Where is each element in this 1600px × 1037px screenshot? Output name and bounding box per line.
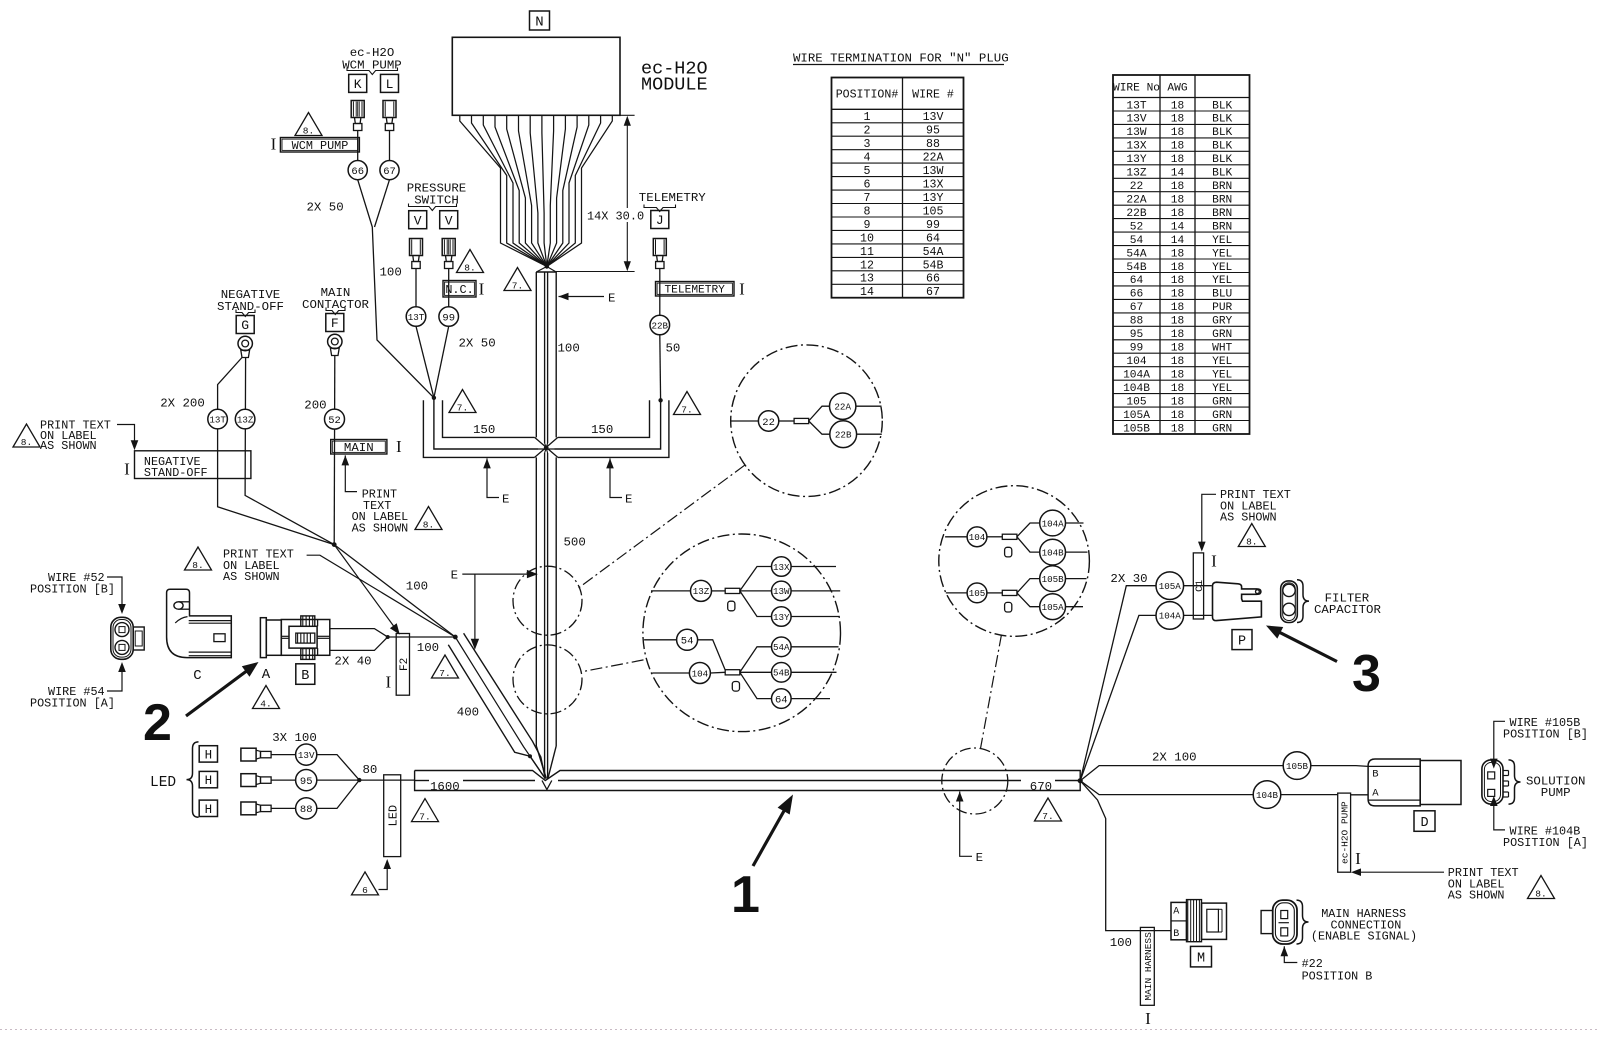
- svg-text:7.: 7.: [1042, 811, 1053, 822]
- wire circle 66: [348, 161, 367, 180]
- wire from junction to channel top: [334, 545, 455, 637]
- svg-text:18: 18: [1171, 423, 1184, 435]
- wires from circles to filter capacitor plug: [1184, 585, 1212, 587]
- svg-text:8: 8: [864, 205, 871, 218]
- svg-text:18: 18: [1171, 370, 1184, 382]
- wire circle 13V: [296, 744, 317, 765]
- svg-text:K: K: [354, 77, 362, 92]
- lug terminal 13V: [241, 748, 256, 761]
- svg-text:18: 18: [1171, 356, 1184, 368]
- main bundle middle line: [415, 780, 429, 782]
- svg-text:BLK: BLK: [1212, 154, 1232, 166]
- svg-text:1600: 1600: [430, 780, 460, 794]
- svg-text:100: 100: [417, 641, 439, 655]
- drawing frame bottom edge: [0, 1029, 1600, 1031]
- terminal under L: [383, 101, 396, 118]
- svg-text:18: 18: [1171, 114, 1184, 126]
- wire from F ring terminal down: [333, 356, 336, 545]
- wire circle 13T (stand-off): [208, 409, 228, 429]
- boxed label TELEMETRY: [656, 282, 735, 297]
- O mark under 105 splice: [1005, 602, 1012, 612]
- wire circle 105B (detail): [1040, 566, 1066, 592]
- svg-text:22: 22: [762, 417, 775, 429]
- note triangle 7 under bundle right: [1035, 798, 1062, 821]
- svg-text:67: 67: [1130, 302, 1143, 314]
- svg-text:2: 2: [143, 694, 172, 752]
- left arm channel of breakout: [423, 400, 534, 457]
- wire circle 104 (detail 3): [967, 527, 987, 547]
- svg-text:H: H: [205, 748, 213, 762]
- svg-text:GRN: GRN: [1212, 396, 1232, 408]
- svg-text:13V: 13V: [1126, 114, 1146, 126]
- svg-text:7: 7: [864, 192, 871, 205]
- svg-text:E: E: [502, 492, 509, 506]
- svg-text:104: 104: [692, 668, 709, 679]
- svg-text:105A: 105A: [1159, 581, 1182, 592]
- svg-text:3: 3: [1352, 645, 1381, 703]
- svg-text:14: 14: [1171, 221, 1185, 233]
- note triangle 7 left arm: [449, 390, 476, 413]
- svg-text:6: 6: [864, 179, 871, 192]
- main harness mating face (3-pos): [1273, 900, 1297, 944]
- svg-text:CONTACTOR: CONTACTOR: [302, 298, 369, 312]
- svg-text:POSITION [A]: POSITION [A]: [1503, 836, 1588, 850]
- svg-text:BLK: BLK: [1212, 168, 1232, 180]
- fan to 105B/105A: [1017, 579, 1040, 593]
- svg-text:67: 67: [926, 286, 940, 299]
- svg-text:I: I: [271, 135, 277, 154]
- svg-text:8.: 8.: [423, 519, 434, 530]
- svg-text:YEL: YEL: [1212, 383, 1232, 395]
- junction dot at bundle right end: [1078, 778, 1083, 783]
- bracket under PRESSURE SWITCH label: [409, 204, 457, 211]
- terminal under K: [351, 101, 364, 118]
- svg-text:10: 10: [860, 232, 874, 245]
- O mark under 104 splice: [1005, 547, 1012, 557]
- svg-text:F2: F2: [399, 658, 411, 671]
- svg-text:54A: 54A: [923, 246, 944, 259]
- svg-text:64: 64: [926, 232, 940, 245]
- splice joint (105): [1002, 590, 1017, 595]
- svg-text:66: 66: [1130, 289, 1143, 301]
- svg-text:13Z: 13Z: [693, 586, 710, 597]
- svg-text:22A: 22A: [923, 152, 944, 165]
- fan to 104A/104B: [1017, 523, 1040, 537]
- wire circle 88: [296, 798, 317, 819]
- svg-text:54: 54: [1130, 235, 1144, 247]
- svg-text:105B: 105B: [1042, 574, 1065, 585]
- wire from J terminal to 22B: [659, 269, 661, 316]
- wire circle 105A (detail): [1040, 594, 1066, 620]
- connector B cylindrical body: [260, 618, 266, 658]
- svg-text:PUMP: PUMP: [1541, 786, 1571, 800]
- svg-text:22A: 22A: [1126, 195, 1146, 207]
- svg-text:7.: 7.: [439, 668, 450, 679]
- svg-text:WIRE TERMINATION FOR "N" PLUG: WIRE TERMINATION FOR "N" PLUG: [793, 52, 1009, 66]
- svg-text:E: E: [608, 292, 615, 306]
- svg-text:GRN: GRN: [1212, 423, 1232, 435]
- E leader at bundle top: [559, 293, 569, 301]
- big arrow 1: [753, 802, 789, 866]
- svg-text:11: 11: [860, 246, 874, 259]
- svg-text:66: 66: [351, 166, 364, 178]
- wire circle 105B: [1283, 752, 1311, 780]
- wire circle 104B: [1253, 781, 1281, 809]
- svg-text:13W: 13W: [773, 586, 790, 597]
- main vertical bundle below module: [535, 272, 537, 437]
- wire 104 into splice: [652, 672, 689, 674]
- wire from right V terminal: [448, 269, 450, 307]
- LED wires converge: [317, 755, 360, 781]
- note triangle 6 with leader to LED label: [352, 872, 379, 895]
- leader to NEGATIVE STAND-OFF label: [117, 425, 135, 446]
- wire from junction to F2 leader arrow: [334, 545, 396, 630]
- svg-text:AS SHOWN: AS SHOWN: [352, 521, 409, 535]
- svg-text:13Z: 13Z: [237, 414, 254, 425]
- svg-text:GRN: GRN: [1212, 410, 1232, 422]
- svg-text:8.: 8.: [1535, 888, 1546, 899]
- svg-text:18: 18: [1171, 100, 1184, 112]
- svg-text:7.: 7.: [457, 402, 468, 413]
- svg-text:C: C: [193, 668, 201, 684]
- svg-text:BLK: BLK: [1212, 141, 1232, 153]
- connector M assembly: [1171, 902, 1187, 939]
- boxed label MAIN: [331, 440, 387, 455]
- note triangle 4: [253, 686, 280, 709]
- svg-text:I: I: [396, 437, 402, 456]
- big arrow 3: [1272, 629, 1337, 662]
- wire down to main harness connector M: [1080, 781, 1171, 931]
- boxed label LED (vertical): [384, 775, 401, 857]
- svg-text:H: H: [205, 774, 213, 788]
- svg-text:LED: LED: [150, 775, 176, 791]
- connector F identifier box: [326, 314, 344, 332]
- svg-text:7.: 7.: [512, 280, 523, 291]
- svg-text:BRN: BRN: [1212, 181, 1232, 193]
- svg-text:13X: 13X: [773, 562, 790, 573]
- svg-text:(ENABLE SIGNAL): (ENABLE SIGNAL): [1311, 930, 1417, 944]
- svg-text:1: 1: [864, 111, 871, 124]
- svg-text:18: 18: [1171, 127, 1184, 139]
- detail circle 2 (13Z and 54/104 splices): [643, 534, 841, 732]
- svg-text:54A: 54A: [1126, 248, 1146, 260]
- svg-text:13W: 13W: [923, 165, 944, 178]
- main bundle bottom line: [415, 771, 1081, 791]
- bundle tip V at main junction: [542, 781, 552, 790]
- svg-text:13X: 13X: [1126, 141, 1146, 153]
- wire 22B down to right arm junction: [659, 335, 662, 401]
- svg-text:G: G: [241, 318, 249, 333]
- svg-text:670: 670: [1030, 780, 1052, 794]
- svg-text:POSITION [B]: POSITION [B]: [30, 582, 115, 596]
- svg-text:13Y: 13Y: [923, 192, 944, 205]
- diagonal harness channel to main junction: [448, 645, 545, 779]
- leader from detail circle 1 to bundle: [579, 465, 745, 588]
- svg-text:105: 105: [969, 588, 986, 599]
- svg-text:18: 18: [1171, 410, 1184, 422]
- svg-text:I: I: [1355, 849, 1361, 868]
- svg-text:105: 105: [923, 205, 944, 218]
- svg-text:AS SHOWN: AS SHOWN: [40, 439, 97, 453]
- svg-text:POSITION [B]: POSITION [B]: [1503, 727, 1588, 741]
- svg-text:8.: 8.: [303, 125, 314, 136]
- svg-text:BRN: BRN: [1212, 195, 1232, 207]
- leader to connector position A: [107, 667, 122, 692]
- label D identifier box: [1414, 811, 1435, 832]
- splice joint (104): [1002, 534, 1017, 539]
- svg-text:2X 100: 2X 100: [1152, 751, 1197, 765]
- wire circle 22A (detail): [830, 393, 856, 419]
- dashed detail-indicator circle on bundle (4): [942, 748, 1008, 814]
- wire circle 104A: [1156, 602, 1184, 630]
- detail circle 3 (104/105 splices): [939, 486, 1090, 637]
- svg-text:67: 67: [383, 166, 396, 178]
- leader to C1 label: [1202, 494, 1216, 547]
- svg-text:N: N: [535, 15, 543, 31]
- svg-text:B: B: [301, 669, 309, 684]
- solution pump connector D body: [1368, 759, 1420, 806]
- svg-text:GRN: GRN: [1212, 329, 1232, 341]
- E leader at dashed circle 4: [956, 792, 964, 802]
- svg-text:V: V: [414, 213, 422, 228]
- wire 66 from K terminal: [357, 131, 359, 162]
- svg-text:13: 13: [860, 273, 874, 286]
- svg-text:52: 52: [1130, 221, 1143, 233]
- connector K identifier box: [349, 74, 367, 92]
- wire 22 into splice: [731, 420, 759, 422]
- connector N identifier box: [530, 11, 550, 30]
- brace for LED group: [187, 742, 199, 817]
- svg-text:13V: 13V: [298, 750, 315, 761]
- svg-text:54B: 54B: [923, 259, 944, 272]
- svg-text:54: 54: [681, 636, 694, 648]
- wire to 95 circle: [271, 779, 296, 781]
- dashed detail-indicator circle on bundle (1): [513, 566, 582, 635]
- svg-text:F: F: [331, 316, 339, 331]
- svg-text:54B: 54B: [773, 668, 790, 679]
- wire circle 67: [380, 161, 399, 180]
- note triangle 8 top-left: [13, 424, 40, 447]
- wire circle 104A (detail): [1040, 510, 1066, 536]
- leader from detail circle 3 to bundle: [981, 635, 1002, 749]
- leader #22 POSITION B: [1281, 946, 1289, 956]
- wire from B tail to channel junction: [396, 636, 455, 638]
- wire fan-out from N connector (14 wires): [460, 115, 547, 266]
- svg-text:13V: 13V: [923, 111, 944, 124]
- svg-text:WCM PUMP: WCM PUMP: [292, 139, 349, 153]
- svg-text:POSITION [A]: POSITION [A]: [30, 696, 115, 710]
- leader from note to ec-H2O PUMP label: [1356, 871, 1445, 873]
- svg-text:22B: 22B: [652, 320, 669, 331]
- label B identifier box: [296, 664, 315, 685]
- splice joint (13Z): [725, 588, 740, 593]
- svg-text:BLK: BLK: [1212, 114, 1232, 126]
- note triangle 8 (filter cap): [1238, 524, 1265, 547]
- svg-text:104B: 104B: [1123, 383, 1150, 395]
- note triangle 8 for N.C. label: [457, 250, 484, 273]
- svg-text:POSITION B: POSITION B: [1302, 970, 1373, 984]
- leader wire105B into connector: [1494, 721, 1505, 764]
- svg-text:99: 99: [926, 219, 940, 232]
- svg-text:D: D: [1420, 816, 1428, 831]
- svg-text:TELEMETRY: TELEMETRY: [639, 191, 706, 205]
- svg-text:18: 18: [1171, 289, 1184, 301]
- svg-text:7.: 7.: [681, 404, 692, 415]
- wire tail from connector B: [330, 629, 388, 651]
- note triangle 8 (mid): [415, 507, 442, 530]
- label P identifier box: [1232, 630, 1252, 650]
- svg-text:105: 105: [1126, 396, 1146, 408]
- fan to 54A/54B/64: [740, 647, 772, 673]
- svg-text:13Y: 13Y: [1126, 154, 1146, 166]
- connector V identifier box (right): [440, 211, 458, 229]
- svg-text:22A: 22A: [834, 402, 851, 413]
- lug terminal 95: [241, 774, 256, 787]
- connector H identifier box 1: [199, 746, 217, 762]
- svg-text:105B: 105B: [1123, 423, 1150, 435]
- brace for main harness connection: [1297, 900, 1309, 944]
- svg-text:104: 104: [1126, 356, 1146, 368]
- note triangle 7 near LED: [412, 799, 439, 822]
- svg-text:22B: 22B: [835, 430, 852, 441]
- terminal under right V (N.C.): [442, 239, 455, 256]
- svg-text:YEL: YEL: [1212, 262, 1232, 274]
- E leader under right arm: [606, 458, 614, 468]
- svg-text:13Z: 13Z: [1126, 168, 1146, 180]
- svg-text:2: 2: [864, 125, 871, 138]
- wire circle 13T: [406, 307, 426, 327]
- dimension 14X 30.0: [620, 114, 635, 116]
- svg-text:I: I: [1211, 552, 1217, 571]
- connector L identifier box: [381, 74, 399, 92]
- leader to connector position B: [107, 577, 122, 610]
- svg-text:AWG: AWG: [1167, 82, 1187, 94]
- svg-text:8.: 8.: [21, 437, 32, 448]
- svg-text:200: 200: [304, 399, 326, 413]
- wire from left V terminal: [415, 269, 417, 307]
- component C bracket: [167, 589, 232, 657]
- solution pump mating face (2-pos): [1482, 760, 1503, 804]
- svg-text:12: 12: [860, 259, 874, 272]
- svg-text:105A: 105A: [1042, 602, 1065, 613]
- wire circle 22B: [650, 315, 670, 335]
- wire circle 99: [439, 307, 459, 327]
- svg-text:14: 14: [1171, 168, 1185, 180]
- svg-text:95: 95: [926, 125, 940, 138]
- svg-text:104B: 104B: [1256, 790, 1279, 801]
- note triangle 7 near F2: [432, 655, 459, 678]
- detail circle 1 (wire 22 splice): [731, 345, 883, 497]
- E leader under left arm: [483, 458, 491, 468]
- svg-text:104B: 104B: [1042, 547, 1065, 558]
- svg-text:A: A: [1372, 788, 1379, 800]
- wire circle 13Y (detail): [772, 607, 792, 627]
- svg-text:5: 5: [864, 165, 871, 178]
- svg-text:80: 80: [363, 763, 378, 777]
- wire circle 64 (detail): [772, 689, 792, 709]
- svg-text:BRN: BRN: [1212, 208, 1232, 220]
- svg-text:400: 400: [457, 706, 479, 720]
- svg-text:L: L: [386, 77, 394, 92]
- svg-text:13T: 13T: [209, 414, 226, 425]
- label M identifier box: [1191, 946, 1212, 967]
- svg-text:ec-H2O PUMP: ec-H2O PUMP: [1340, 801, 1351, 864]
- svg-text:AS SHOWN: AS SHOWN: [223, 570, 280, 584]
- svg-text:P: P: [1238, 635, 1246, 650]
- svg-text:GRY: GRY: [1212, 316, 1232, 328]
- svg-text:18: 18: [1171, 195, 1184, 207]
- X crossover at arm/bundle intersection: [535, 437, 558, 457]
- svg-text:YEL: YEL: [1212, 356, 1232, 368]
- svg-text:6: 6: [362, 885, 368, 896]
- wire 104 into splice (detail 3): [945, 536, 967, 538]
- svg-text:88: 88: [300, 804, 313, 816]
- svg-text:POSITION#: POSITION#: [836, 89, 899, 102]
- svg-text:18: 18: [1171, 181, 1184, 193]
- leader from MAIN label down to note: [345, 455, 357, 491]
- svg-text:YEL: YEL: [1212, 275, 1232, 287]
- wire circle 105 (detail 3): [967, 583, 987, 603]
- svg-text:WIRE No: WIRE No: [1113, 82, 1160, 94]
- connector G identifier box: [236, 316, 254, 334]
- svg-text:STAND-OFF: STAND-OFF: [144, 466, 208, 480]
- svg-text:18: 18: [1171, 396, 1184, 408]
- terminal under J: [653, 239, 666, 256]
- svg-text:13Y: 13Y: [773, 612, 790, 623]
- svg-text:66: 66: [926, 273, 940, 286]
- connector H identifier box 2: [199, 771, 217, 787]
- splice joint (22): [794, 418, 809, 423]
- note triangle 7 right arm: [674, 392, 701, 415]
- svg-text:100: 100: [406, 580, 428, 594]
- wire circle 13W (detail): [772, 581, 792, 601]
- wire circle 22 (detail): [758, 411, 778, 431]
- svg-text:13W: 13W: [1126, 127, 1146, 139]
- note triangle 7 at bundle top: [504, 268, 531, 291]
- svg-text:V: V: [445, 213, 453, 228]
- svg-text:4.: 4.: [260, 698, 271, 709]
- svg-text:I: I: [385, 672, 391, 691]
- svg-text:95: 95: [300, 776, 313, 788]
- svg-text:M: M: [1197, 952, 1205, 967]
- svg-text:CAPACITOR: CAPACITOR: [1314, 603, 1381, 617]
- bracket under WCM PUMP label: [347, 68, 398, 75]
- svg-text:2X 40: 2X 40: [334, 655, 371, 669]
- svg-text:I: I: [1145, 1009, 1151, 1028]
- boxed label F2 (vertical): [396, 634, 409, 696]
- svg-text:150: 150: [591, 423, 613, 437]
- svg-text:J: J: [656, 213, 664, 228]
- wire circle 104B (detail): [1040, 539, 1066, 565]
- svg-text:9: 9: [864, 219, 871, 232]
- svg-text:2X 50: 2X 50: [307, 201, 344, 215]
- svg-text:50: 50: [666, 342, 681, 356]
- wire from LED junction to main bundle: [359, 779, 414, 781]
- svg-text:YEL: YEL: [1212, 370, 1232, 382]
- filter capacitor plug body: [1213, 582, 1262, 620]
- svg-text:13T: 13T: [1126, 100, 1146, 112]
- 2X 100 wire pair to solution pump: [1080, 766, 1368, 781]
- svg-text:18: 18: [1171, 316, 1184, 328]
- svg-text:13T: 13T: [408, 312, 425, 323]
- svg-text:AS SHOWN: AS SHOWN: [1220, 511, 1277, 525]
- svg-text:H: H: [205, 803, 213, 817]
- wire to 88 circle: [271, 807, 296, 809]
- svg-text:150: 150: [473, 423, 495, 437]
- svg-text:13X: 13X: [923, 179, 944, 192]
- svg-text:18: 18: [1171, 248, 1184, 260]
- brace for filter capacitor: [1297, 580, 1309, 623]
